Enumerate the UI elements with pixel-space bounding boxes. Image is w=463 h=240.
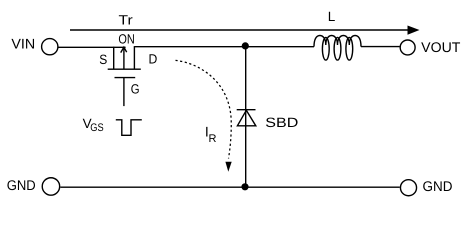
diode SBD cathode bar xyxy=(237,109,256,111)
source vertical lead xyxy=(113,47,115,69)
dashed arrow: reverse recovery current path xyxy=(176,60,232,158)
svg-text:Tr: Tr xyxy=(119,13,134,28)
wire: switch node down to ground node xyxy=(245,46,247,187)
VGS gate pulse waveform xyxy=(116,120,142,136)
wire: drain to switch node xyxy=(134,46,245,48)
svg-text:VOUT: VOUT xyxy=(421,39,461,55)
svg-text:S: S xyxy=(99,52,107,67)
svg-text:R: R xyxy=(209,133,217,145)
svg-text:GS: GS xyxy=(90,122,103,134)
wire: switch node to inductor xyxy=(246,46,314,48)
wire: bottom ground rail xyxy=(60,186,400,188)
terminal GND left circle xyxy=(42,178,59,195)
svg-text:SBD: SBD xyxy=(265,115,298,130)
svg-text:VIN: VIN xyxy=(11,35,35,51)
transistor Tr (MOSFET) xyxy=(108,46,141,106)
gate lead xyxy=(123,78,125,107)
wire: VIN to transistor source/arrow xyxy=(58,46,125,48)
ON arrowhead barbs xyxy=(121,47,127,52)
drain vertical lead xyxy=(133,46,135,69)
svg-text:GND: GND xyxy=(7,177,36,193)
terminal GND right circle xyxy=(400,180,416,196)
gate bar xyxy=(115,77,136,79)
node: ground junction dot xyxy=(241,183,248,190)
wire: inductor to VOUT xyxy=(361,46,400,48)
svg-text:D: D xyxy=(149,51,158,66)
svg-text:L: L xyxy=(328,9,336,24)
svg-text:G: G xyxy=(131,81,140,96)
node: switch node junction dot xyxy=(242,42,249,49)
terminal VIN circle xyxy=(42,39,58,55)
svg-text:ON: ON xyxy=(118,32,134,47)
channel bar xyxy=(108,68,141,70)
arrowhead of dashed reverse current arrow xyxy=(225,162,231,172)
terminal VOUT circle xyxy=(400,40,415,55)
arrowhead of top current-direction line xyxy=(408,26,420,35)
diode SBD triangle xyxy=(237,110,255,126)
inductor L coil xyxy=(314,36,361,61)
ON arrow shaft xyxy=(123,47,125,69)
wire: top current-direction line xyxy=(70,29,410,31)
svg-text:GND: GND xyxy=(423,178,453,194)
